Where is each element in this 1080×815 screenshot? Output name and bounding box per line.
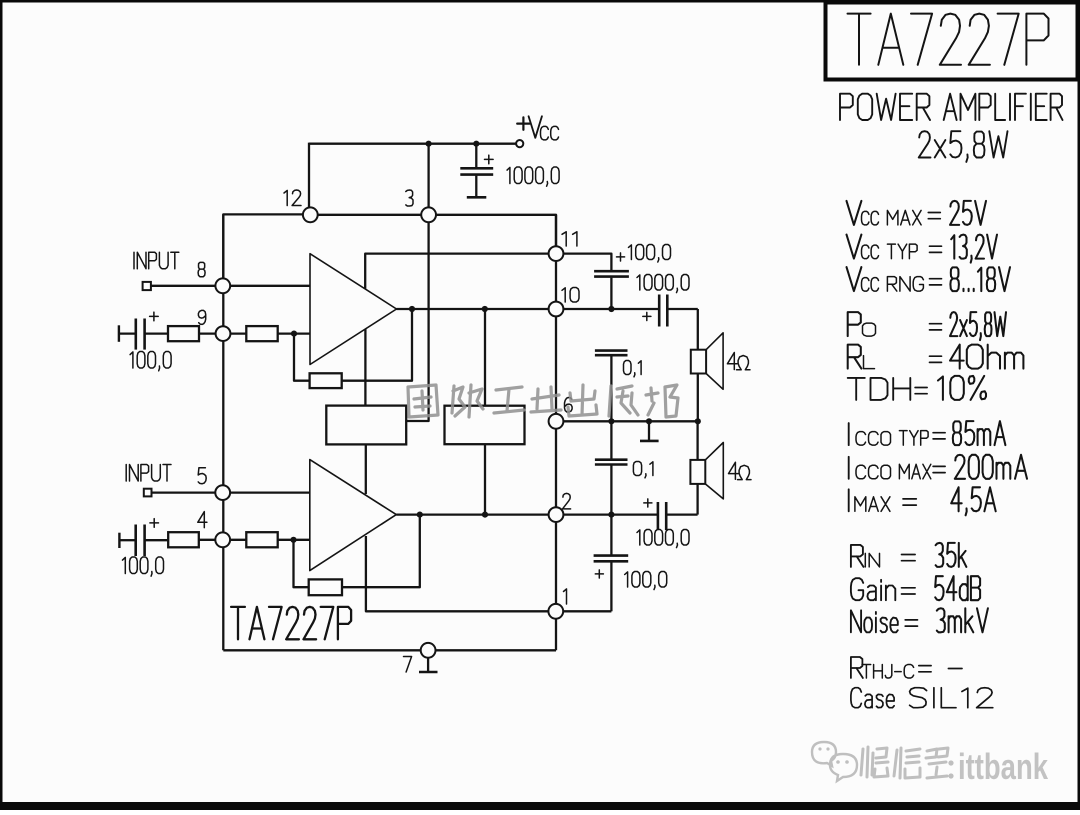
wire feedback 1 to output <box>342 309 412 381</box>
wire feedback 2 to output <box>342 515 420 587</box>
wire LS1 to pin6 rail <box>697 374 699 422</box>
resistor R4 (input 2 left) <box>168 532 199 547</box>
junction pin6 / C6 <box>608 418 614 424</box>
wire box B2 bottom to U2 output <box>484 444 486 514</box>
wire pin12 to pin3 <box>316 214 422 216</box>
wire pin11 to C4 <box>564 254 612 270</box>
pin 8 circle <box>215 278 230 293</box>
label 1000,0 of C5 <box>637 275 689 293</box>
pin 10 circle <box>549 302 564 317</box>
resistor R6 (feedback 2) <box>309 579 342 595</box>
wire pin1 to C9 <box>563 610 612 612</box>
input terminal (lower) <box>144 489 152 497</box>
svg-text:ittbank: ittbank <box>958 746 1049 787</box>
label + of C2 <box>150 312 159 321</box>
pin 2 circle <box>549 507 564 522</box>
pin 3 circle <box>421 207 436 222</box>
label 100,0 of C4 <box>629 245 671 263</box>
label + of C5 <box>643 312 651 320</box>
pin 11 circle <box>549 246 564 261</box>
subtitle POWER AMPLIFIER <box>840 94 930 120</box>
spec Po = 2x5,8W <box>848 312 861 336</box>
wire input to pin8 <box>151 285 216 287</box>
spec Noise = 3mkV <box>851 610 898 632</box>
label 0,1 of C6 <box>624 361 642 377</box>
junction U1 output / feedback 1 <box>409 306 415 312</box>
label pin 10 <box>562 288 579 303</box>
speaker LS1 <box>691 350 706 374</box>
label + of C4 <box>617 253 625 261</box>
capacitor C2 100,0 (input 1) <box>118 325 120 342</box>
label 100,0 of C2 <box>130 352 171 371</box>
wire C5 to speaker LS1 <box>697 309 699 350</box>
pin 12 circle <box>303 207 318 222</box>
wire pin3 vertical to bias box <box>406 143 428 421</box>
junction top rail / pin3 <box>426 141 432 147</box>
resistor R2 (input 1 right) <box>246 326 277 341</box>
watermark chinese stamp (decorative) <box>408 385 438 417</box>
wire LS2 to pin2 rail <box>696 484 698 515</box>
junction U1 output / box B2 <box>482 306 488 312</box>
pin 4 circle <box>215 532 230 547</box>
wire box B2 top to U1 output <box>484 309 486 406</box>
title box <box>826 3 1078 80</box>
resistor R1 (input 1 left) <box>168 326 199 341</box>
pin 1 circle <box>548 604 563 619</box>
wire left bus vertical <box>222 214 224 650</box>
capacitor C6 0,1 (upper) <box>595 349 628 352</box>
node +Vcc terminal <box>516 140 523 147</box>
wire pin9 to R2 <box>230 332 246 334</box>
op-amp U1 <box>310 254 397 365</box>
wire input to pin5 <box>152 491 217 493</box>
label 4ohm LS1 <box>727 353 737 370</box>
wire pin6 rail <box>564 420 698 422</box>
wire U2 output <box>396 513 657 515</box>
label pin 9 <box>198 310 205 324</box>
spec Icco TYP = 85mA <box>848 423 850 445</box>
box B1 <box>326 406 406 445</box>
wire U1 bottom edge to box B1 <box>364 329 366 406</box>
label INPUT (upper) <box>134 252 179 269</box>
label pin 8 <box>198 262 205 276</box>
wire U1 output <box>397 308 660 310</box>
label 0,1 of C7 <box>633 462 653 478</box>
label TA7227P (IC) <box>231 607 351 639</box>
capacitor C3 100,0 (input 2) <box>118 533 120 548</box>
spec Vcc RNG = 8...18V <box>847 267 862 291</box>
label pin 2 <box>563 493 571 509</box>
spec Vcc MAX = 25V <box>847 201 862 225</box>
wire feedback 1 <box>294 334 310 381</box>
wire pin4 to R5 <box>230 539 246 541</box>
label + of C1 <box>485 155 494 164</box>
label 1000,0 of C1 <box>507 167 559 186</box>
capacitor C9 100,0 (bottom) <box>610 515 612 555</box>
spec Case SIL12 <box>851 688 894 708</box>
junction pin6 / speakers <box>695 418 701 424</box>
spec Rthj-c = - <box>851 657 863 678</box>
junction pin4 net / feedback 2 <box>290 537 296 543</box>
pin 6 circle <box>549 414 564 429</box>
wire left bus to pin12 <box>223 214 304 279</box>
spec Imax = 4,5A <box>848 489 850 511</box>
ground tick mid <box>648 421 650 440</box>
capacitor C4 100,0 <box>594 270 629 273</box>
ground pin7 <box>427 658 429 672</box>
resistor R3 (feedback 1) <box>310 373 342 388</box>
wire right bus vertical <box>555 215 557 651</box>
wire box B1 to U2 top edge <box>365 444 367 494</box>
label + of C3 <box>150 519 159 528</box>
ground tick below C1 <box>467 196 487 199</box>
label 1000,0 of C8 <box>637 530 689 548</box>
op-amp U2 <box>310 460 397 571</box>
wire bottom rail <box>223 649 556 651</box>
label pin 12 <box>284 190 301 206</box>
label INPUT (lower) <box>126 465 171 482</box>
speaker LS2 <box>696 421 698 460</box>
junction U1 output / C5 <box>608 306 614 312</box>
spec Rin = 35k <box>851 545 864 567</box>
watermark weixin text (decorative) <box>861 747 888 777</box>
spec TDH = 10% <box>848 378 911 400</box>
wire top Vcc rail <box>309 143 517 145</box>
resistor R5 (input 2 right) <box>246 532 277 547</box>
pin 7 circle <box>421 643 436 658</box>
spec Gain = 54dB <box>851 578 895 600</box>
wire pin11 to U1 top edge <box>365 254 549 289</box>
junction top rail / C1 <box>473 141 479 147</box>
label pin 7 <box>404 657 412 673</box>
label pin 4 <box>198 512 207 528</box>
wire pin3 to right bus <box>435 215 556 247</box>
watermark wechat logo (decorative) <box>812 742 836 766</box>
spec Vcc TYP = 13,2V <box>847 235 862 259</box>
junction U2 output / feedback 2 <box>417 511 423 517</box>
label + of C9 <box>595 570 603 578</box>
junction pin6 / ground <box>646 418 652 424</box>
title TA7227P <box>848 14 1049 65</box>
label 4ohm LS2 <box>729 462 739 479</box>
junction U2 output / C7 <box>608 511 614 517</box>
spec RL = 4 Ohm <box>848 345 862 369</box>
pin 9 circle <box>216 326 231 341</box>
wire pin8 to op-amp U1 <box>230 285 310 287</box>
wire feedback 2 <box>294 540 309 587</box>
label 100,0 of C9 <box>625 572 667 590</box>
junction U2 output / box B2 <box>482 511 488 517</box>
spec Icco MAX = 200mA <box>848 457 850 479</box>
pin 5 circle <box>215 485 230 500</box>
capacitor C7 0,1 (lower) <box>610 421 612 459</box>
capacitor C5 1000,0 (speaker 1 coupling) <box>658 295 661 327</box>
input terminal (upper) <box>143 282 151 290</box>
label + of C8 <box>644 499 652 507</box>
capacitor C8 1000,0 (speaker 2 coupling) <box>657 502 660 530</box>
label 100,0 of C3 <box>123 557 164 576</box>
box B2 <box>445 406 525 445</box>
label pin 6 <box>565 398 573 413</box>
wire pin1 to U2 bottom edge <box>366 536 549 611</box>
label pin 1 <box>564 589 567 604</box>
wire pin12 riser <box>308 143 310 209</box>
wire pin5 to op-amp U2 <box>230 491 310 493</box>
label +Vcc <box>517 117 529 129</box>
label pin 3 <box>406 190 413 206</box>
capacitor C1 1000,0 (Vcc filter) <box>475 144 477 168</box>
subtitle 2x5,8W <box>919 131 1008 162</box>
label pin 11 <box>562 232 577 246</box>
junction pin9 net / feedback 1 <box>291 331 297 337</box>
label pin 5 <box>198 468 206 484</box>
